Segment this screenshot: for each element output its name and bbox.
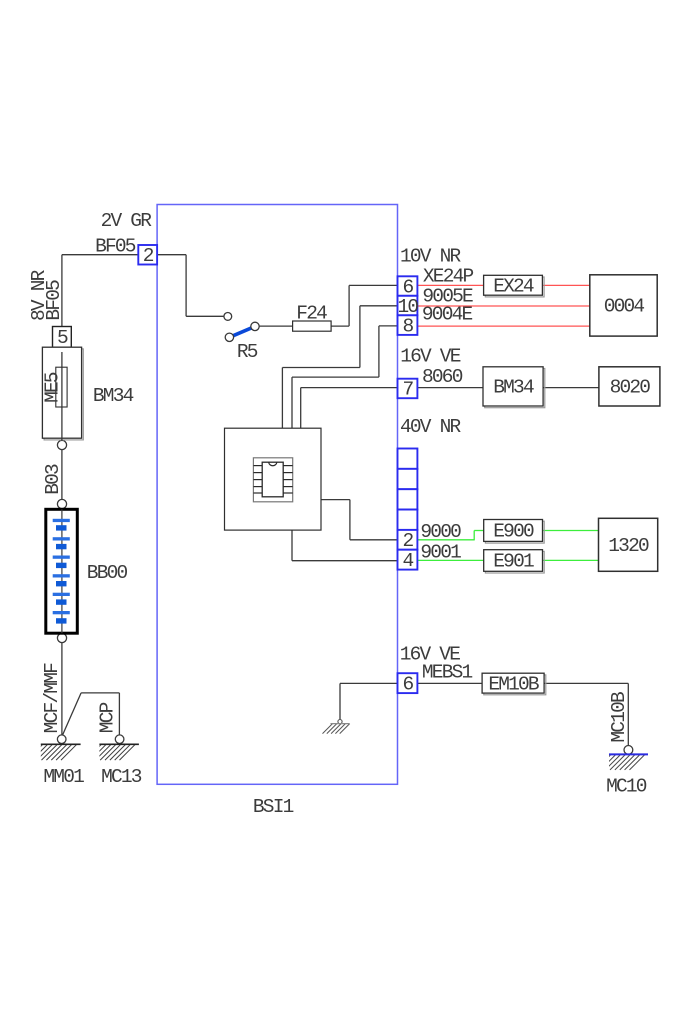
svg-text:ME5: ME5	[42, 372, 64, 403]
svg-text:E901: E901	[493, 551, 534, 573]
svg-text:7: 7	[402, 379, 413, 401]
svg-text:MM01: MM01	[43, 766, 84, 788]
svg-text:1320: 1320	[608, 535, 649, 557]
svg-text:8060: 8060	[422, 366, 463, 388]
svg-text:EX24: EX24	[493, 275, 534, 297]
svg-text:E900: E900	[493, 521, 534, 543]
svg-text:6: 6	[402, 673, 413, 695]
svg-text:MC10: MC10	[606, 775, 647, 797]
svg-text:10V NR: 10V NR	[400, 245, 462, 267]
svg-text:9001: 9001	[420, 542, 461, 564]
svg-text:9004E: 9004E	[422, 304, 473, 326]
svg-text:MC13: MC13	[101, 766, 142, 788]
svg-text:MEBS1: MEBS1	[422, 662, 473, 684]
svg-text:9000: 9000	[420, 521, 461, 543]
svg-text:MCF/MMF: MCF/MMF	[41, 663, 63, 733]
svg-text:0004: 0004	[604, 296, 645, 318]
svg-text:F24: F24	[296, 302, 327, 324]
svg-text:2: 2	[402, 530, 413, 552]
svg-text:EM10B: EM10B	[488, 673, 539, 695]
svg-text:2V GR: 2V GR	[101, 210, 153, 232]
svg-text:B03: B03	[42, 464, 64, 495]
svg-text:MCP: MCP	[96, 702, 118, 733]
svg-text:5: 5	[57, 327, 68, 349]
svg-text:BF05: BF05	[43, 280, 65, 321]
svg-text:16V VE: 16V VE	[400, 346, 461, 368]
svg-text:BM34: BM34	[93, 385, 134, 407]
svg-text:BSI1: BSI1	[253, 796, 294, 818]
svg-text:8: 8	[402, 315, 413, 337]
svg-text:BF05: BF05	[95, 236, 136, 258]
svg-text:8020: 8020	[610, 377, 651, 399]
svg-text:40V NR: 40V NR	[400, 416, 462, 438]
svg-text:BB00: BB00	[87, 562, 128, 584]
svg-text:R5: R5	[237, 341, 258, 363]
svg-text:XE24P: XE24P	[423, 266, 474, 288]
svg-text:2: 2	[143, 245, 154, 267]
svg-text:4: 4	[402, 550, 413, 572]
svg-text:MC10B: MC10B	[608, 692, 630, 743]
svg-text:BM34: BM34	[493, 377, 534, 399]
